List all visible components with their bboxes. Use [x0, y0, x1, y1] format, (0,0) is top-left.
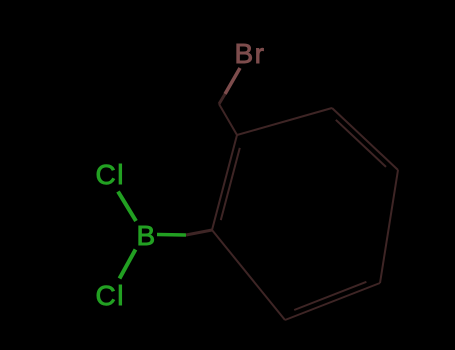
svg-text:Cl: Cl	[96, 159, 125, 190]
bond CH2-Br (bromine half, maroon)	[225, 68, 240, 94]
ring edge C1-C2 (left, double)	[212, 135, 240, 230]
bond B-C1 (carbon half)	[186, 230, 212, 235]
ring edge C6-C1 (bottom left)	[212, 230, 285, 320]
ring edge C3-C4 (top right, double)	[332, 108, 398, 170]
benzene ring	[212, 108, 398, 320]
bond B-Cl2	[120, 250, 136, 279]
svg-text:Cl: Cl	[96, 280, 125, 311]
bond B-C1 (boron half, green)	[157, 233, 186, 237]
bond CH2-C2 (to ring)	[219, 104, 237, 135]
ring edge C5-C6 (bottom, double)	[285, 282, 380, 320]
bond Cl1-B	[118, 192, 136, 222]
svg-text:B: B	[137, 220, 156, 251]
ring edge C4-C5 (right)	[380, 170, 398, 283]
ring edge C2-C3 (top)	[237, 108, 332, 135]
bond CH2-Br (carbon half)	[219, 94, 225, 104]
svg-text:Br: Br	[235, 38, 266, 69]
